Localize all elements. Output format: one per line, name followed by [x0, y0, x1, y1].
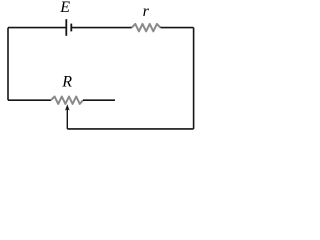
wire: middle horizontal, left corner to resistor R — [8, 99, 51, 101]
wiper arrow head — [65, 104, 70, 110]
wire: top horizontal, left corner to battery long plate — [8, 27, 66, 29]
battery E long plate — [65, 19, 67, 36]
wire: bottom horizontal, wiper to right corner — [67, 128, 193, 130]
wiper arrow shaft — [66, 109, 68, 129]
svg-text:R: R — [61, 73, 72, 90]
wire: right vertical — [193, 28, 195, 129]
resistor R (rheostat zigzag) — [51, 97, 83, 104]
wire: top horizontal, battery short plate to resistor r — [71, 27, 132, 29]
wire: top horizontal, resistor r to right corner — [160, 27, 193, 29]
wire: left vertical — [7, 28, 9, 101]
wire: middle horizontal, resistor R to open end — [83, 99, 115, 101]
svg-text:E: E — [59, 0, 70, 16]
battery E short plate — [70, 24, 72, 32]
resistor r (zigzag) — [132, 24, 161, 31]
svg-text:r: r — [143, 3, 150, 20]
